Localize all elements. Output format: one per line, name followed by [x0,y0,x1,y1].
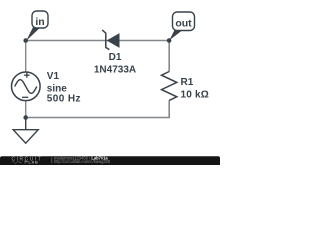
svg-text:D1: D1 [109,52,122,63]
watermark bar [0,155,220,165]
node dot gnd [23,115,28,120]
wire right (to R1 top) [168,41,170,72]
wire top [26,40,170,42]
svg-text:10 kΩ: 10 kΩ [181,90,209,101]
voltage source V1 [11,72,40,101]
node dot out [167,38,172,43]
resistor R1 [162,72,177,101]
logo separator [51,157,53,163]
zener diode D1 [102,30,119,50]
svg-text:⊢LAB: ⊢LAB [25,160,39,165]
wire left (V1 bottom to bottom rail) [25,101,27,118]
flag in [26,11,48,41]
svg-text:in: in [35,16,44,28]
flag out [169,12,194,40]
wire right (R1 bottom to bottom rail) [168,100,170,117]
svg-text:1N4733A: 1N4733A [94,64,136,75]
ground [13,118,38,144]
svg-text:V1: V1 [47,71,60,82]
svg-text:500 Hz: 500 Hz [47,94,81,105]
svg-text:out: out [175,18,192,30]
node dot in [23,38,28,43]
svg-text:http://circuitlab.com/c/5awg32: http://circuitlab.com/c/5awg325 [54,159,111,164]
svg-text:R1: R1 [181,77,194,88]
logo squiggle [12,161,22,163]
wire left (to V1 top) [25,41,27,73]
wire bottom [26,117,170,119]
